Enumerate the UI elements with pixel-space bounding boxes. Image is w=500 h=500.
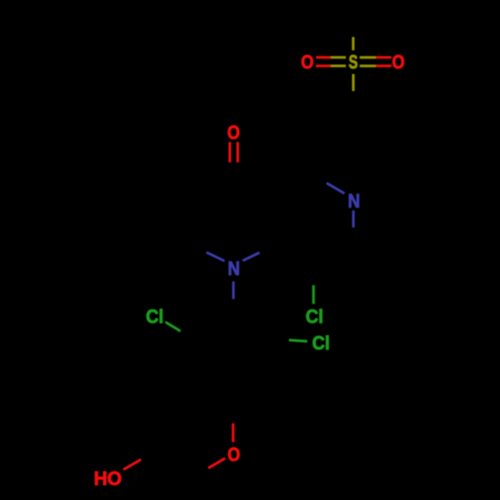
svg-text:N: N xyxy=(228,258,240,279)
svg-text:S: S xyxy=(349,51,358,73)
svg-text:O: O xyxy=(392,51,405,73)
svg-text:O: O xyxy=(301,51,314,73)
svg-text:Cl: Cl xyxy=(306,306,324,328)
svg-text:O: O xyxy=(227,122,240,144)
svg-text:Cl: Cl xyxy=(146,305,164,327)
svg-text:O: O xyxy=(228,444,241,466)
svg-text:Cl: Cl xyxy=(312,332,330,354)
svg-text:N: N xyxy=(348,191,360,212)
svg-text:HO: HO xyxy=(94,469,122,490)
